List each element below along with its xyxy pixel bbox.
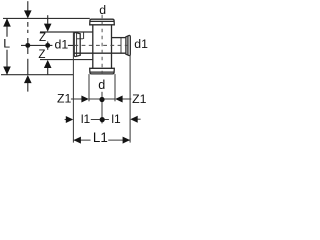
bottom socket bead inner line xyxy=(90,71,114,73)
svg-text:d1: d1 xyxy=(134,37,148,51)
dim line at x=47.7 tick above dot xyxy=(47,42,49,44)
extension line left mouth x=73.4 xyxy=(72,33,74,143)
svg-text:Z: Z xyxy=(39,31,46,44)
Z extension line top (left socket top edge extended) xyxy=(40,31,93,33)
L arrow up xyxy=(3,18,11,26)
Z1 right tail xyxy=(122,98,131,100)
svg-text:L1: L1 xyxy=(93,130,108,145)
vertical pipe walls (bead to bead) xyxy=(93,25,112,69)
dim line at x=27.8 below-arrow body xyxy=(27,83,29,92)
arrowheads left diagram xyxy=(3,10,51,83)
l1 right arrow xyxy=(130,116,137,123)
top socket bead inner line xyxy=(90,20,114,22)
bottom socket bead xyxy=(90,68,115,74)
l1 left arrow xyxy=(66,116,73,123)
left bead xyxy=(74,33,80,57)
svg-text:d: d xyxy=(98,78,105,92)
L1 dimension line xyxy=(73,139,130,141)
dimension L line xyxy=(6,18,8,74)
l1 right outside tail xyxy=(137,118,140,120)
right socket top edge xyxy=(112,37,126,39)
svg-text:L: L xyxy=(3,37,10,51)
dim line at x=27.8 upper segment xyxy=(27,1,29,10)
top socket bead xyxy=(90,19,115,25)
right bead xyxy=(126,35,130,55)
svg-text:l1: l1 xyxy=(81,112,91,126)
dim line at x=47.7 below-arrow body xyxy=(47,67,49,74)
svg-text:Z1: Z1 xyxy=(57,91,72,105)
svg-text:l1: l1 xyxy=(111,112,121,126)
Z1 left arrow xyxy=(81,96,88,103)
x47.7 arrow up xyxy=(44,60,52,68)
Z1 dimension line through dot xyxy=(89,98,115,100)
left socket step tick xyxy=(83,32,85,39)
svg-text:d: d xyxy=(99,3,106,17)
l1 left outside tail xyxy=(65,119,68,121)
dim line at x=47.7 tick below dot xyxy=(47,48,49,50)
L1 right arrow xyxy=(123,137,130,144)
extension line right mouth x=130.1 xyxy=(129,56,131,143)
dim line at x=27.8 lower solid segment xyxy=(27,59,29,75)
L1 left arrow xyxy=(74,137,81,144)
horizontal axis centerline of fitting xyxy=(74,44,131,46)
vertical axis centerline of fitting xyxy=(101,15,103,78)
node dot left centerline xyxy=(25,43,30,48)
axis dot on Z1 row xyxy=(99,97,104,102)
svg-text:d1: d1 xyxy=(55,37,69,51)
x27.8 arrow up xyxy=(24,75,32,83)
node dot center xyxy=(45,43,50,48)
Z extension line bottom (left socket lower edge extended) xyxy=(40,59,93,61)
Z1 right arrow xyxy=(115,96,122,103)
bottom mouth extension line xyxy=(1,74,73,76)
x27.8 arrow down xyxy=(24,10,32,18)
dim line at x=27.8 tick below dot xyxy=(27,48,29,54)
extension line bead right x=115 xyxy=(114,74,116,101)
axis dot on l1 row xyxy=(100,117,105,122)
svg-text:Z1: Z1 xyxy=(132,92,147,106)
L arrow down xyxy=(3,67,11,75)
dim line at x=27.8 dash below arrow xyxy=(27,22,29,33)
extension line bead left x=89 xyxy=(88,74,90,101)
l1 mid line through dot xyxy=(91,119,109,121)
dim line at x=27.8 tick above dot xyxy=(27,38,29,43)
horizontal centerline left diagram xyxy=(21,44,73,46)
right socket step tick xyxy=(120,38,122,54)
svg-text:Z: Z xyxy=(38,48,45,61)
extension line axis x=102 xyxy=(101,92,103,124)
top mouth extension line xyxy=(3,17,90,19)
left socket inner bore line xyxy=(76,38,83,40)
x47.7 arrow down xyxy=(44,24,52,32)
dim line at x=47.7 upper segment xyxy=(47,15,49,24)
left bead inner line xyxy=(76,33,78,56)
right bead inner line xyxy=(127,36,129,55)
horizontal pipe bottom edge xyxy=(74,52,126,54)
Z1 left tail xyxy=(71,98,82,100)
